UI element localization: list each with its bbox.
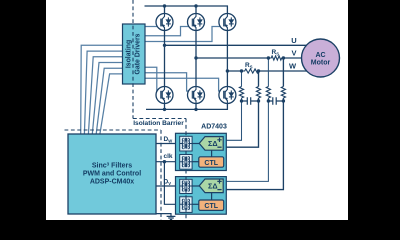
svg-text:ΣΔ: ΣΔ (208, 181, 217, 190)
wire shunt sense 4 (224, 58, 284, 190)
wire T4 to CTL2 (192, 203, 199, 205)
node C2 left (267, 99, 270, 102)
svg-text:ADSP-CM40x: ADSP-CM40x (90, 178, 134, 185)
transistor Q4 (156, 87, 173, 104)
svg-text:Isolation Barrier: Isolation Barrier (133, 120, 184, 127)
wire gate driver to ADSP L4 (92, 63, 122, 135)
node DC+ leg2 (194, 4, 197, 7)
svg-text:CTL: CTL (204, 160, 218, 167)
wire T1 to SD1 (192, 143, 199, 145)
resistor filter R4 (281, 87, 285, 99)
wire shunt sense 3 (224, 58, 269, 181)
svg-text:RS: RS (245, 62, 253, 70)
block CTL1 (199, 157, 224, 167)
op-amp SD2 sigma-delta (199, 179, 223, 193)
wire phase V (196, 57, 305, 59)
resistor filter R1 (239, 87, 243, 99)
wire Dw (156, 143, 180, 145)
wire gate drive to Q4 (145, 67, 158, 91)
svg-text:RS: RS (272, 49, 280, 57)
transistor Q1 (156, 14, 173, 31)
wire gate drive to Q5 (145, 73, 189, 91)
wire SD1 to CTL1 (211, 150, 213, 157)
svg-text:PWM and Control: PWM and Control (83, 170, 141, 177)
wire Dv (156, 185, 180, 187)
wire SD2 to CTL2 (211, 193, 213, 200)
wire gate driver to ADSP L3 (88, 57, 122, 134)
node C2 right (282, 99, 285, 102)
resistor filter R2 (256, 87, 260, 99)
wire phase leg 1 (164, 6, 166, 109)
wire phase leg 3 (226, 30, 228, 86)
svg-text:U: U (291, 36, 296, 45)
block isolating gate drivers (123, 24, 146, 84)
motor M1 (302, 39, 340, 77)
transistor Q6 (219, 87, 236, 104)
wire gate drive to Q6 (145, 78, 220, 91)
resistor Rw (242, 69, 259, 73)
svg-text:DV: DV (164, 178, 172, 186)
wire DC+ rail (145, 6, 228, 14)
transformer T2 (180, 155, 192, 170)
svg-text:Isolating: Isolating (126, 40, 133, 68)
wire T3 to SD2 (192, 185, 199, 187)
transformer T3 (180, 179, 192, 193)
isolation barrier dashed line top (133, 0, 186, 119)
node Rw left (240, 69, 243, 72)
wire gate drive to Q2 (145, 27, 190, 36)
svg-text:Motor: Motor (311, 59, 331, 66)
resistor filter R3 (266, 87, 270, 99)
ground (156, 214, 171, 216)
wire gate drive to Q1 (145, 26, 158, 28)
node W tap (226, 69, 229, 72)
wire DC- rail (146, 103, 227, 109)
wire gate driver to ADSP L6 (100, 74, 123, 134)
svg-text:AD7403: AD7403 (201, 123, 227, 130)
node V tap (194, 56, 197, 59)
wire gate driver to ADSP L5 (96, 68, 122, 134)
wire phase W (227, 70, 309, 72)
wire phase U (165, 44, 313, 46)
node C1 right (257, 99, 260, 102)
node Rv right (282, 56, 285, 59)
capacitor C2 (268, 97, 283, 104)
wire clk (156, 161, 180, 163)
svg-text:clk: clk (164, 153, 173, 160)
transistor Q5 (188, 87, 205, 104)
svg-text:V: V (291, 49, 296, 58)
capacitor C1 (242, 97, 259, 104)
isolation barrier dashed line left (65, 130, 162, 220)
block CTL2 (199, 200, 224, 210)
svg-text:W: W (289, 62, 297, 71)
svg-text:Gate Drivers: Gate Drivers (135, 33, 142, 74)
isolation barrier dashed line right (185, 119, 187, 221)
node U tap (163, 44, 166, 47)
node DC- leg2 (194, 108, 197, 111)
wire gate driver to ADSP L1 (81, 45, 123, 134)
wire shunt sense 1 (224, 71, 242, 140)
transistor Q3 (219, 14, 236, 31)
wire gate drive to Q3 (145, 27, 221, 42)
node Rw right (257, 69, 260, 72)
node DC+ leg1 (163, 4, 166, 7)
block ADSP-CM40x (68, 134, 156, 214)
resistor Rv (268, 56, 283, 60)
wire phase leg 2 (195, 6, 197, 109)
transformer T1 (180, 136, 192, 151)
transistor Q2 (188, 14, 205, 31)
svg-text:ΣΔ: ΣΔ (208, 139, 217, 148)
transformer T4 (180, 197, 192, 213)
op-amp SD1 sigma-delta (199, 137, 223, 151)
wire clk branch (164, 162, 179, 205)
block AD7403 lower (176, 177, 227, 215)
wire shunt sense 2 (224, 71, 259, 147)
svg-text:AC: AC (315, 52, 325, 59)
wire T2 to CTL1 (192, 161, 199, 163)
node clk branch (163, 160, 166, 163)
block AD7403 upper (176, 133, 227, 170)
node C1 left (240, 99, 243, 102)
wire gate driver to ADSP L2 (84, 51, 122, 134)
node Rv left (267, 56, 270, 59)
node DC- leg1 (163, 108, 166, 111)
svg-text:Sinc3 Filters: Sinc3 Filters (92, 161, 132, 169)
svg-text:CTL: CTL (204, 203, 218, 210)
svg-text:DW: DW (164, 136, 173, 144)
